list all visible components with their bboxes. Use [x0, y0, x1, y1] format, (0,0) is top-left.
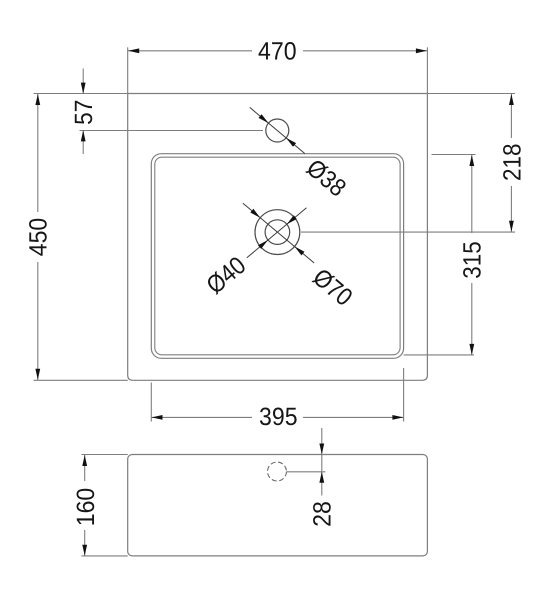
drain O70 arrows [250, 209, 304, 256]
dimension 28 vertical line [321, 428, 323, 496]
dimension 395 left extension line [150, 383, 152, 422]
dimension 57 arrows [81, 83, 86, 142]
tap hole centerline [80, 130, 264, 132]
dimension 315 line [471, 155, 473, 355]
dimension 218 line [510, 94, 512, 232]
dimension 28 arrows [319, 444, 324, 483]
tap leader line (40deg) [250, 107, 305, 153]
drain inner circle [265, 220, 290, 245]
drain leader line O40 (40deg up-right) [247, 208, 307, 258]
svg-text:450: 450 [25, 218, 53, 257]
dimension 450 line [37, 94, 39, 381]
dimension 315 upper extension line [432, 154, 476, 156]
tap leader arrows [259, 114, 297, 147]
svg-text:28: 28 [309, 501, 337, 527]
dimension 160 arrows [82, 455, 87, 556]
dimension 160 line [84, 455, 86, 556]
drain outer circle [255, 210, 300, 255]
tap hole circle [266, 119, 289, 142]
inner bowl outer line [151, 154, 403, 359]
dimension 315 lower extension line [404, 354, 474, 356]
drain O40 arrows [258, 215, 297, 249]
dimension 315 arrows [469, 155, 474, 355]
overflow hole connector line [287, 471, 325, 473]
svg-text:218: 218 [498, 143, 526, 181]
left edge top extension (470) [127, 47, 129, 93]
svg-text:160: 160 [72, 488, 100, 527]
dimension 395 arrows [152, 415, 404, 420]
svg-text:Ø40: Ø40 [201, 251, 251, 299]
svg-text:470: 470 [258, 38, 297, 66]
svg-text:Ø70: Ø70 [307, 263, 357, 311]
dimension 395 line [151, 416, 403, 418]
overflow hole dashed circle [268, 462, 287, 481]
svg-text:Ø38: Ø38 [301, 154, 351, 202]
dimension 57 arrow tails [82, 69, 84, 155]
svg-text:395: 395 [259, 403, 298, 431]
basin outer outline (top view) [128, 94, 428, 381]
drain leader line O70 (40deg down-right) [243, 203, 314, 263]
dimension 395 right extension line [403, 368, 405, 422]
dimension 218 arrows [509, 94, 514, 232]
dimension 450 arrows [35, 94, 40, 380]
bottom edge left extension line [34, 379, 128, 381]
side view outline [128, 455, 428, 556]
dimension 470 line [128, 50, 428, 52]
svg-text:57: 57 [70, 100, 98, 125]
right edge top extension (470) [426, 47, 428, 93]
inner bowl inner line [155, 157, 400, 355]
dimension 470 arrows [128, 48, 427, 53]
dimension 160 lower extension line [82, 555, 128, 557]
svg-text:315: 315 [459, 241, 487, 279]
top edge extension line (left+right of basin, carries 450/218 dims) [34, 93, 516, 95]
drain centerline to right dims [301, 231, 515, 233]
dimension 160 upper extension line [82, 454, 128, 456]
